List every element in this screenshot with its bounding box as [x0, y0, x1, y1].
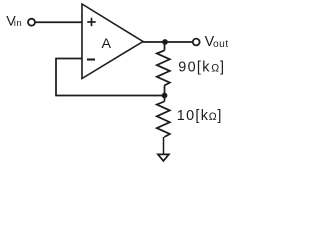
svg-text:10[k: 10[k	[177, 108, 209, 124]
node output junction	[162, 39, 168, 45]
wire feedback vertical segment	[55, 58, 57, 97]
svg-text:in: in	[14, 18, 22, 29]
svg-text:90[k: 90[k	[178, 60, 210, 76]
terminal Vin	[28, 19, 35, 26]
wire Vin to op-amp + input	[35, 21, 82, 23]
wire feedback bottom segment to node	[56, 95, 165, 97]
resistor 90kohm zigzag	[157, 51, 170, 86]
wire output node to resistor 90k	[164, 42, 166, 51]
value label 10[kohm]	[177, 108, 222, 124]
svg-text:out: out	[213, 39, 229, 50]
op-amp + input pin mark	[87, 18, 95, 26]
svg-text:Ω: Ω	[211, 63, 219, 75]
label Vin	[6, 13, 22, 29]
wire feedback node to resistor 10k	[164, 96, 166, 102]
terminal Vout	[193, 39, 200, 46]
svg-text:Ω: Ω	[209, 111, 217, 123]
ground symbol	[158, 154, 169, 161]
wire resistor 90k to feedback node	[164, 86, 166, 96]
label Vout	[205, 34, 229, 50]
resistor 10kohm zigzag	[157, 102, 170, 138]
op-amp U1 triangle	[82, 4, 143, 79]
svg-text:]: ]	[217, 108, 221, 124]
wire resistor 10k to ground	[163, 137, 165, 154]
svg-text:A: A	[102, 36, 112, 52]
wire op-amp - input feedback left segment	[56, 58, 82, 60]
wire op-amp output to Vout terminal	[143, 41, 193, 43]
value label 90[kohm]	[178, 60, 224, 76]
node feedback junction	[162, 93, 168, 99]
op-amp - input pin mark	[87, 58, 95, 60]
svg-text:]: ]	[220, 60, 224, 76]
